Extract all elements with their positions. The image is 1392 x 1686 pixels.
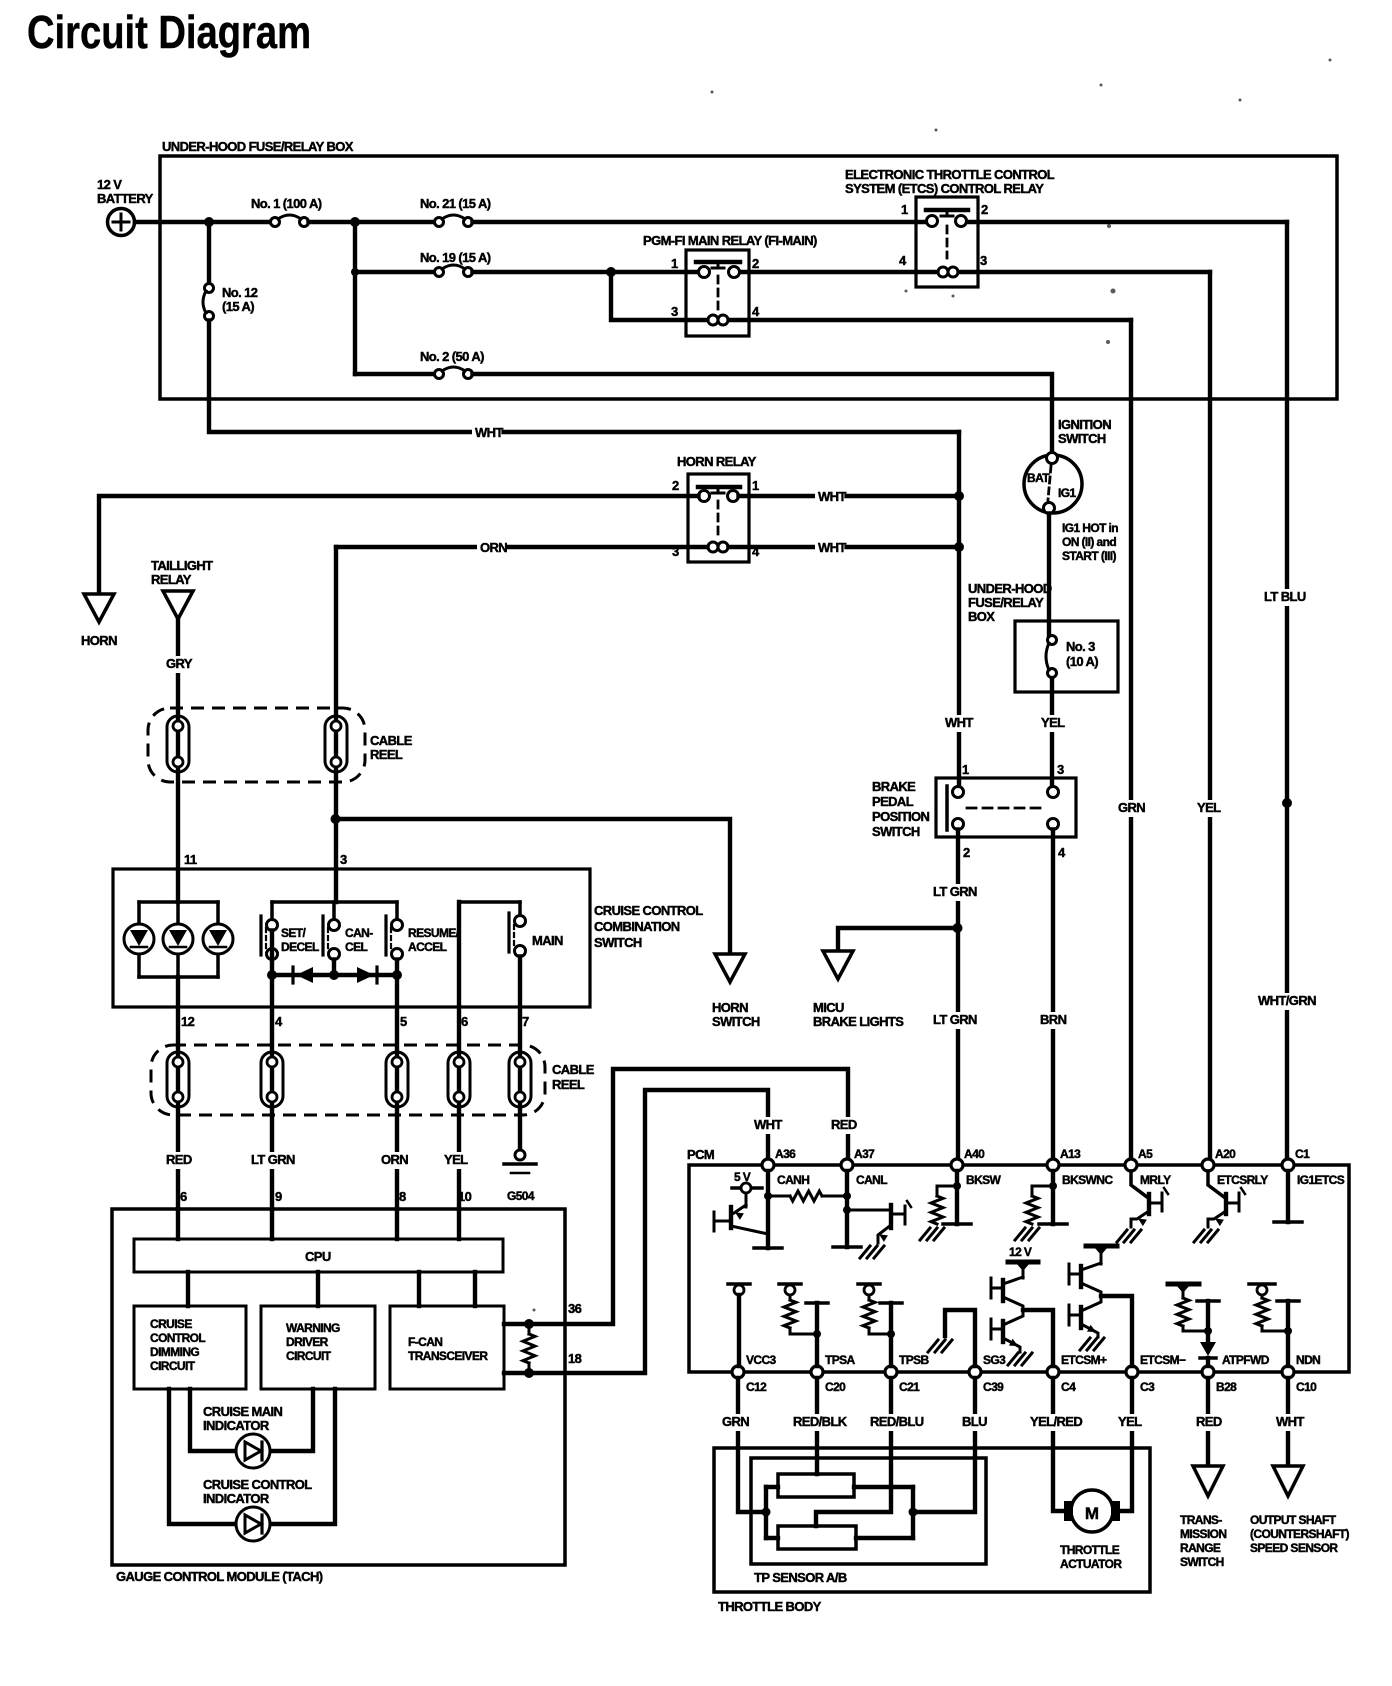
- transistor CANL driver: [847, 1201, 911, 1243]
- wire horn relay pin4 to WHT drop: [729, 545, 960, 549]
- svg-text:MICU: MICU: [813, 1000, 844, 1015]
- label RED CAN: [828, 1117, 857, 1134]
- fuse F3 No.3 10A vertical: [1046, 636, 1057, 678]
- svg-text:2: 2: [963, 845, 970, 860]
- svg-text:LT GRN: LT GRN: [933, 884, 977, 899]
- resistor TPSA: [784, 1300, 817, 1334]
- battery B1 12V: [108, 209, 135, 236]
- label GRN right column: [1115, 800, 1144, 817]
- svg-text:RANGE: RANGE: [1180, 1541, 1221, 1555]
- svg-text:BOX: BOX: [968, 609, 995, 624]
- ground SG3 motor: [1008, 1353, 1032, 1365]
- terminal bar A36: [754, 1246, 782, 1250]
- svg-text:OUTPUT SHAFT: OUTPUT SHAFT: [1250, 1513, 1337, 1527]
- svg-text:C39: C39: [983, 1380, 1004, 1394]
- wire CPU to warning driver: [316, 1272, 320, 1306]
- wire GRN PGM-FI pin4 drop to PCM A5: [1129, 320, 1133, 1159]
- indicator CRUISE MAIN INDICATOR: [190, 1389, 313, 1468]
- PCM pin A20 ETCSRLY: [1202, 1147, 1268, 1187]
- resistor BKSW pulldown: [931, 1186, 957, 1224]
- svg-text:A20: A20: [1215, 1147, 1236, 1161]
- wire fuse No.19 to PGM-FI relay pin 1: [473, 270, 699, 274]
- svg-text:MAIN: MAIN: [532, 933, 563, 948]
- arrow to HORN: [84, 594, 114, 622]
- svg-text:C1: C1: [1295, 1147, 1310, 1161]
- PCM pin C20 TPSA: [811, 1353, 856, 1394]
- svg-text:CRUISE: CRUISE: [150, 1317, 192, 1331]
- label YEL bottom: [1115, 1414, 1144, 1431]
- label GRN bottom: [719, 1414, 748, 1431]
- wire C39 SG3 internal path: [945, 1310, 975, 1366]
- TP sensor A resistor element: [778, 1474, 854, 1497]
- svg-text:2: 2: [672, 478, 679, 493]
- indicator lamp bus: [139, 902, 218, 977]
- svg-text:SG3: SG3: [983, 1353, 1006, 1367]
- svg-text:ORN: ORN: [381, 1152, 408, 1167]
- label WHT above brake switch: [942, 715, 971, 732]
- svg-text:ETCSM+: ETCSM+: [1061, 1353, 1107, 1367]
- svg-text:GRN: GRN: [1118, 800, 1145, 815]
- svg-text:ON (II) and: ON (II) and: [1062, 535, 1116, 549]
- wire ORN down through cable reel to cruise pin 3: [334, 547, 338, 902]
- svg-text:RELAY: RELAY: [151, 572, 192, 587]
- svg-text:RED/BLU: RED/BLU: [870, 1414, 924, 1429]
- label WHT pin1 row: [815, 489, 844, 506]
- svg-text:START (III): START (III): [1062, 549, 1116, 563]
- svg-text:IG1ETCS: IG1ETCS: [1297, 1173, 1345, 1187]
- wire No.19 row left segment: [355, 270, 435, 274]
- svg-text:9: 9: [275, 1189, 282, 1204]
- wire horn feed to horn relay pin 2: [99, 496, 699, 594]
- svg-text:BRAKE: BRAKE: [872, 779, 916, 794]
- wire BLU bus to elements: [854, 1487, 913, 1538]
- svg-text:CANL: CANL: [856, 1173, 887, 1187]
- svg-text:IG1 HOT in: IG1 HOT in: [1062, 521, 1118, 535]
- cruise control combination switch box: [113, 869, 590, 1007]
- svg-text:SWITCH: SWITCH: [1180, 1555, 1224, 1569]
- arrow from TAILLIGHT RELAY: [163, 591, 193, 619]
- 12V source motor driver right: [1086, 1246, 1117, 1264]
- resistor ATPFWD: [1177, 1298, 1208, 1331]
- supply bar ATPFWD: [1168, 1284, 1199, 1298]
- wire ATPFWD right branch with bar: [1197, 1301, 1219, 1331]
- node junction x611 No.19 row: [606, 267, 616, 277]
- ground at ETCSRLY: [1194, 1230, 1218, 1242]
- cruise control dimming circuit box: [134, 1306, 246, 1389]
- svg-text:INDICATOR: INDICATOR: [203, 1418, 270, 1433]
- svg-text:TRANSCEIVER: TRANSCEIVER: [408, 1349, 488, 1363]
- wire BRN brake pin4 to PCM A13: [1051, 830, 1055, 1160]
- svg-text:F-CAN: F-CAN: [408, 1335, 442, 1349]
- svg-text:6: 6: [461, 1014, 468, 1029]
- svg-text:LT GRN: LT GRN: [251, 1152, 295, 1167]
- arrow to transmission range switch: [1193, 1466, 1223, 1496]
- wire CPU to F-CAN a: [417, 1272, 421, 1306]
- wire No.3 fuse to brake pedal switch pin 3: [1050, 679, 1054, 787]
- svg-text:1: 1: [752, 478, 759, 493]
- svg-text:7: 7: [522, 1014, 529, 1029]
- ground ETCSM drivers: [1080, 1338, 1104, 1350]
- svg-text:CRUISE CONTROL: CRUISE CONTROL: [594, 903, 703, 918]
- transistor ETCSM+ high side: [991, 1277, 1023, 1310]
- svg-text:5 V: 5 V: [734, 1170, 751, 1184]
- label WHT bottom: [1273, 1414, 1302, 1431]
- svg-text:IGNITION: IGNITION: [1058, 417, 1111, 432]
- svg-text:HORN: HORN: [712, 1000, 748, 1015]
- transistor ETCSM- high side: [1069, 1263, 1101, 1296]
- label RED bottom: [1193, 1414, 1222, 1431]
- svg-text:UNDER-HOOD: UNDER-HOOD: [968, 581, 1052, 596]
- svg-text:A13: A13: [1060, 1147, 1081, 1161]
- wire top bus SET/CANCEL/RESUME: [272, 900, 397, 904]
- node junction ATPFWD: [1204, 1327, 1212, 1335]
- svg-text:BATTERY: BATTERY: [97, 191, 154, 206]
- svg-text:BRN: BRN: [1040, 1012, 1067, 1027]
- PCM pin C3 ETCSM&#8722;: [1126, 1353, 1186, 1394]
- transistor CANH driver: [714, 1205, 768, 1234]
- wires module pins to CPU: [178, 1209, 459, 1239]
- arrow to MICU BRAKE LIGHTS: [823, 951, 853, 979]
- wire CPU to F-CAN b: [473, 1272, 477, 1306]
- svg-text:LT BLU: LT BLU: [1264, 589, 1306, 604]
- node junction diode row cancel: [329, 970, 339, 980]
- svg-text:MRLY: MRLY: [1140, 1173, 1171, 1187]
- relay HORN RELAY: [688, 474, 749, 562]
- wire WHT C10 to output shaft speed sensor: [1286, 1378, 1290, 1466]
- label LT GRN lower: [930, 1012, 983, 1029]
- svg-text:BKSW: BKSW: [966, 1173, 1002, 1187]
- label LT GRN upper: [930, 884, 983, 901]
- wire PGM-FI pin 3 loop to No.19 row: [611, 274, 708, 320]
- wire ETCS relay pin 3 to YEL drop: [959, 270, 1211, 274]
- wires through cable reel lower: [178, 902, 520, 1209]
- svg-text:DIMMING: DIMMING: [150, 1345, 199, 1359]
- label RED/BLU: [867, 1414, 928, 1431]
- wire RED/BLK C20 to TP sensor A wiper: [815, 1378, 819, 1474]
- svg-text:WARNING: WARNING: [286, 1321, 340, 1335]
- switch RESUME/ACCEL: [386, 902, 403, 960]
- wire LT BLU ETCS pin2 drop to PCM C1: [1285, 222, 1289, 1159]
- fuse F19 No.19 15A: [435, 265, 473, 277]
- svg-text:DRIVER: DRIVER: [286, 1335, 329, 1349]
- svg-text:No. 2 (50 A): No. 2 (50 A): [420, 349, 484, 364]
- CPU box: [134, 1239, 503, 1272]
- ground BKSW: [920, 1228, 944, 1240]
- svg-text:PGM-FI MAIN RELAY (FI-MAIN): PGM-FI MAIN RELAY (FI-MAIN): [643, 233, 817, 248]
- node junction x355: [350, 217, 360, 227]
- label YEL column: [441, 1152, 470, 1169]
- svg-text:TPSB: TPSB: [899, 1353, 930, 1367]
- PCM pin C21 TPSB: [885, 1353, 930, 1394]
- resistor BKSWNC pulldown: [1026, 1186, 1053, 1224]
- wire No.12 branch down to WHT run: [209, 399, 959, 432]
- svg-text:C12: C12: [746, 1380, 767, 1394]
- TP sensor box: [751, 1458, 986, 1564]
- svg-text:POSITION: POSITION: [872, 809, 930, 824]
- wire NDN right branch with bar: [1277, 1301, 1299, 1366]
- svg-text:GAUGE CONTROL MODULE (TACH): GAUGE CONTROL MODULE (TACH): [116, 1569, 323, 1584]
- node junction NDN: [1284, 1327, 1292, 1335]
- svg-text:WHT: WHT: [754, 1117, 782, 1132]
- svg-text:WHT: WHT: [818, 540, 846, 555]
- relay PGM-FI MAIN RELAY (FI-MAIN): [686, 250, 749, 336]
- svg-text:DECEL: DECEL: [281, 940, 319, 954]
- ground CANL: [860, 1246, 884, 1258]
- svg-text:PEDAL: PEDAL: [872, 794, 914, 809]
- terminal bar A13: [1039, 1222, 1067, 1226]
- wire ORN horn relay pin3 run: [336, 545, 708, 549]
- svg-text:No. 19 (15 A): No. 19 (15 A): [420, 250, 491, 265]
- node junction GRN feed: [762, 1508, 771, 1517]
- node junction battery bus x209: [204, 217, 214, 227]
- svg-text:A36: A36: [775, 1147, 796, 1161]
- label GRY: [163, 656, 192, 673]
- supply source NDN: [1249, 1284, 1275, 1298]
- svg-text:LT GRN: LT GRN: [933, 1012, 977, 1027]
- 5V source VCC3: [728, 1284, 750, 1366]
- svg-text:12 V: 12 V: [97, 177, 122, 192]
- PCM pin A37 CANL: [841, 1147, 887, 1187]
- wire branch down from x355 to No.19 and No.2 rows: [353, 222, 357, 374]
- svg-text:MISSION: MISSION: [1180, 1527, 1226, 1541]
- wire A13 internal stub: [1051, 1171, 1055, 1224]
- transistor ETCSRLY: [1208, 1171, 1245, 1227]
- svg-text:B28: B28: [1216, 1380, 1237, 1394]
- wire A36 internal stub: [766, 1171, 770, 1248]
- terminal bar C1: [1274, 1220, 1302, 1224]
- label WHT/GRN: [1255, 993, 1316, 1010]
- wire GRN bus to elements: [766, 1487, 778, 1538]
- svg-text:A37: A37: [854, 1147, 875, 1161]
- svg-text:CRUISE MAIN: CRUISE MAIN: [203, 1404, 283, 1419]
- svg-text:C4: C4: [1061, 1380, 1076, 1394]
- svg-text:INDICATOR: INDICATOR: [203, 1491, 270, 1506]
- wire CPU to dimming circuit: [186, 1272, 190, 1306]
- svg-text:ETCSM−: ETCSM−: [1140, 1353, 1186, 1367]
- svg-text:TP SENSOR A/B: TP SENSOR A/B: [754, 1570, 847, 1585]
- node junction TPSB: [887, 1330, 895, 1338]
- svg-text:NDN: NDN: [1296, 1353, 1320, 1367]
- node junction BKSWNC pulldown: [1049, 1182, 1057, 1190]
- label LT GRN column: [248, 1152, 301, 1169]
- label YEL/RED: [1027, 1414, 1088, 1431]
- label YEL right column: [1194, 800, 1223, 817]
- resistor CAN internal: [768, 1191, 847, 1201]
- svg-text:3: 3: [980, 253, 987, 268]
- svg-text:6: 6: [180, 1189, 187, 1204]
- switch CANCEL: [323, 902, 340, 960]
- relay ETCS control relay: [916, 197, 978, 287]
- node junction BLU return: [909, 1508, 918, 1517]
- svg-text:C20: C20: [825, 1380, 846, 1394]
- svg-text:COMBINATION: COMBINATION: [594, 919, 680, 934]
- svg-text:3: 3: [340, 852, 347, 867]
- fuse F2 No.2 50A: [435, 367, 473, 379]
- svg-text:1: 1: [901, 202, 908, 217]
- svg-text:ACCEL: ACCEL: [408, 940, 447, 954]
- wire C1 internal stub: [1286, 1171, 1290, 1222]
- indicator CRUISE CONTROL INDICATOR: [169, 1389, 335, 1541]
- under-hood fuse box No.3 outline: [1015, 621, 1118, 692]
- svg-text:WHT: WHT: [818, 489, 846, 504]
- diode ATPFWD: [1200, 1331, 1216, 1366]
- wire GRN C12 to TP sensor: [738, 1378, 766, 1512]
- svg-text:11: 11: [184, 852, 197, 867]
- svg-text:CABLE: CABLE: [552, 1062, 595, 1077]
- svg-text:12 V: 12 V: [1009, 1245, 1032, 1259]
- svg-text:No. 12: No. 12: [222, 285, 258, 300]
- svg-text:CIRCUIT: CIRCUIT: [150, 1359, 196, 1373]
- wire YEL/RED C4 to throttle actuator: [1053, 1378, 1064, 1511]
- svg-text:SWITCH: SWITCH: [872, 824, 920, 839]
- svg-text:ELECTRONIC THROTTLE CONTROL: ELECTRONIC THROTTLE CONTROL: [845, 167, 1055, 182]
- wire RED B28 to transmission range switch: [1206, 1378, 1210, 1466]
- wire No.2 row left segment: [355, 372, 435, 376]
- node junction resistor bottom: [524, 1368, 534, 1378]
- ground BKSWNC: [1015, 1228, 1039, 1240]
- node junction MICU branch: [953, 923, 963, 933]
- svg-text:3: 3: [671, 304, 678, 319]
- svg-text:RED: RED: [831, 1117, 857, 1132]
- PCM pin C10 NDN: [1282, 1353, 1320, 1394]
- svg-text:SWITCH: SWITCH: [594, 935, 642, 950]
- svg-text:RED: RED: [166, 1152, 192, 1167]
- node junction ORN horn switch branch: [331, 814, 341, 824]
- PCM pin A40 BKSW: [951, 1147, 1002, 1187]
- wire RED/BLU C21 to TP sensor B wiper: [816, 1378, 891, 1526]
- svg-text:C10: C10: [1296, 1380, 1317, 1394]
- cable reel lower connector 3: [386, 1052, 408, 1107]
- gauge control module box: [112, 1209, 565, 1565]
- svg-text:IG1: IG1: [1058, 486, 1076, 500]
- wire F-CAN pin36 to PCM A37 RED: [504, 1069, 848, 1324]
- svg-text:(15 A): (15 A): [222, 299, 254, 314]
- svg-text:8: 8: [399, 1189, 406, 1204]
- switch SET/DECEL: [261, 902, 278, 960]
- svg-text:BKSWNC: BKSWNC: [1062, 1173, 1113, 1187]
- fuse F1 No.1 100A: [271, 215, 309, 227]
- ground SG3 return: [928, 1340, 952, 1352]
- cable reel lower connector 2: [261, 1052, 283, 1107]
- wire ETCS relay pin 2 to LT BLU drop: [968, 220, 1288, 224]
- svg-text:THROTTLE BODY: THROTTLE BODY: [718, 1599, 822, 1614]
- svg-text:WHT: WHT: [1276, 1414, 1304, 1429]
- svg-text:YEL/RED: YEL/RED: [1030, 1414, 1082, 1429]
- svg-text:GRY: GRY: [166, 656, 193, 671]
- transistor ETCSM- low side: [1069, 1296, 1101, 1337]
- svg-text:1: 1: [962, 762, 969, 777]
- svg-text:GRN: GRN: [722, 1414, 749, 1429]
- node junction diode row set: [267, 970, 277, 980]
- cable reel upper dashed outline: [148, 708, 365, 782]
- svg-text:No. 3: No. 3: [1066, 639, 1095, 654]
- cable reel lower connector 4: [448, 1052, 470, 1107]
- svg-text:A40: A40: [964, 1147, 985, 1161]
- arrow to output shaft speed sensor: [1273, 1466, 1303, 1496]
- indicator lamp L1: [124, 924, 154, 954]
- label BRN: [1037, 1012, 1066, 1029]
- node junction BKSW pulldown: [953, 1182, 961, 1190]
- wire C21 internal stub with bar: [880, 1303, 902, 1366]
- wire YEL ETCS pin3 drop to PCM A20: [1208, 272, 1212, 1159]
- wire LT GRN brake pin2 to PCM A40: [956, 830, 960, 1160]
- PCM pin C1 IG1ETCS: [1282, 1147, 1345, 1187]
- PCM box: [689, 1165, 1349, 1372]
- fuse F21 No.21 15A: [435, 215, 473, 227]
- svg-text:No. 1 (100 A): No. 1 (100 A): [251, 196, 322, 211]
- terminal bar A37: [833, 1245, 861, 1249]
- terminal bar A40: [943, 1222, 971, 1226]
- PCM pin C39 SG3: [969, 1353, 1006, 1394]
- ground at MRLY: [1117, 1230, 1141, 1242]
- 5V source TPSB: [858, 1284, 880, 1300]
- throttle body box: [714, 1448, 1150, 1592]
- PCM pin A13 BKSWNC: [1047, 1147, 1113, 1187]
- cable reel lower connector 1: [167, 1052, 189, 1107]
- 12V source motor driver left: [1008, 1245, 1038, 1278]
- svg-text:C3: C3: [1140, 1380, 1155, 1394]
- svg-text:SPEED SENSOR: SPEED SENSOR: [1250, 1541, 1338, 1555]
- svg-text:SET/: SET/: [281, 926, 307, 940]
- resistor TPSB: [863, 1300, 891, 1334]
- cable reel connector GRY: [167, 716, 189, 772]
- wire ignition IG1 to No.3 fuse: [1047, 514, 1051, 635]
- transistor MRLY: [1131, 1171, 1168, 1227]
- PCM pin C12 VCC3: [732, 1353, 777, 1394]
- svg-text:3: 3: [1057, 762, 1064, 777]
- switch MAIN: [459, 902, 526, 957]
- node junction WHT x959 horn relay pin4 row: [954, 542, 964, 552]
- arrow to HORN SWITCH: [715, 954, 745, 982]
- svg-text:RESUME/: RESUME/: [408, 926, 460, 940]
- svg-text:10: 10: [458, 1189, 472, 1204]
- label ORN: [477, 540, 506, 557]
- 5V source TPSA: [779, 1284, 801, 1300]
- svg-text:TAILLIGHT: TAILLIGHT: [151, 558, 213, 573]
- svg-text:WHT: WHT: [475, 425, 503, 440]
- wire MICU branch: [838, 928, 957, 951]
- wire ETCSM- mid to C3: [1101, 1296, 1132, 1366]
- svg-text:CEL: CEL: [345, 940, 367, 954]
- svg-text:RED/BLK: RED/BLK: [793, 1414, 848, 1429]
- svg-text:THROTTLE: THROTTLE: [1060, 1543, 1120, 1557]
- warning driver circuit box: [261, 1306, 375, 1389]
- wire YEL C3 to throttle actuator: [1120, 1378, 1132, 1511]
- label WHT on horizontal run: [472, 425, 501, 442]
- svg-text:WHT: WHT: [945, 715, 973, 730]
- svg-text:Circuit Diagram: Circuit Diagram: [27, 6, 311, 58]
- label BLU: [959, 1414, 988, 1431]
- TP sensor B resistor element: [778, 1526, 856, 1549]
- svg-text:(COUNTERSHAFT): (COUNTERSHAFT): [1250, 1527, 1350, 1541]
- svg-text:A5: A5: [1138, 1147, 1153, 1161]
- svg-text:CABLE: CABLE: [370, 733, 413, 748]
- svg-text:1: 1: [671, 256, 678, 271]
- svg-text:No. 21 (15 A): No. 21 (15 A): [420, 196, 491, 211]
- ground G504: [504, 1150, 536, 1173]
- svg-text:BAT: BAT: [1027, 471, 1050, 485]
- PCM pin B28 ATPFWD: [1202, 1353, 1270, 1394]
- svg-text:SWITCH: SWITCH: [1058, 431, 1106, 446]
- resistor CAN termination: [523, 1324, 535, 1373]
- wire A40 internal stub: [955, 1171, 959, 1224]
- F-CAN transceiver box: [390, 1306, 504, 1389]
- svg-text:TPSA: TPSA: [825, 1353, 856, 1367]
- node junction WHT x959 horn relay pin1 row: [954, 491, 964, 501]
- svg-text:12: 12: [181, 1014, 195, 1029]
- svg-text:C21: C21: [899, 1380, 920, 1394]
- svg-text:REEL: REEL: [552, 1077, 585, 1092]
